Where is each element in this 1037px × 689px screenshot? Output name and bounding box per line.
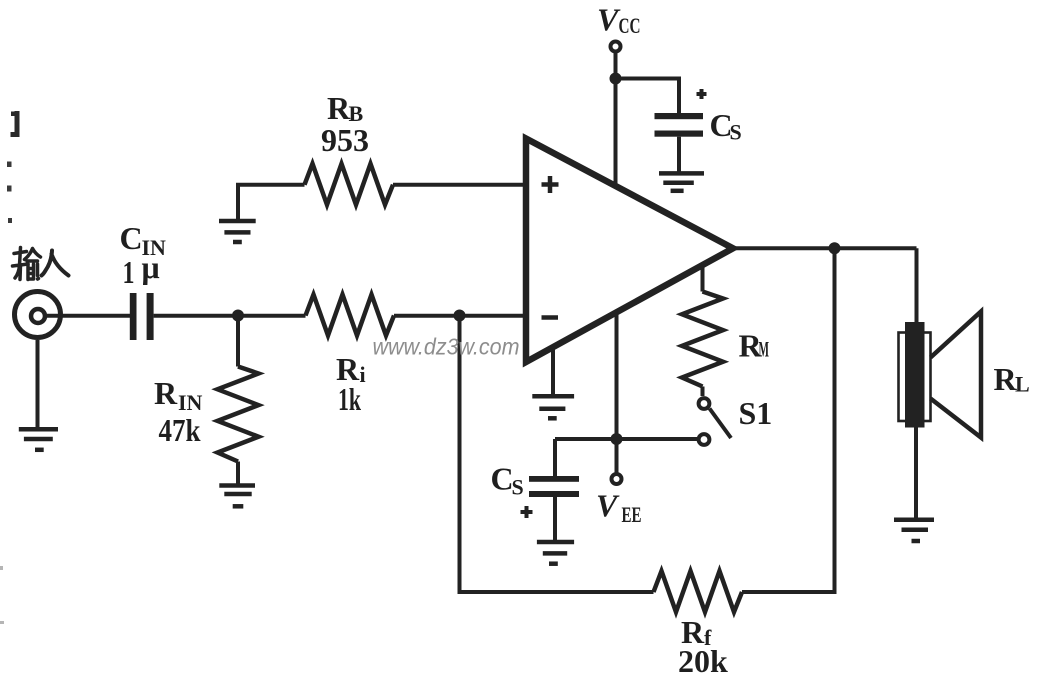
ground (op-amp) [532, 396, 574, 418]
partial glyph left edge top [11, 111, 20, 137]
wire output to speaker [915, 248, 919, 323]
node junction feedback tap [454, 310, 466, 322]
wire CIN to opamp inverting input [154, 314, 306, 318]
wire Rf to output node [742, 248, 835, 592]
wire VEE node to terminal [615, 439, 619, 474]
node junction VCC [610, 73, 622, 85]
label 47k [159, 412, 201, 448]
resistor Rf [654, 571, 743, 612]
switch S1 bottom contact [699, 434, 710, 445]
left edge faint dot 2 [0, 621, 4, 624]
capacitor CS (top) [655, 113, 704, 137]
left edge tick mark 2 [7, 186, 12, 192]
wire RB to opamp non-inverting input [393, 183, 526, 187]
wire junction to RIN [236, 316, 240, 367]
label CIN [120, 220, 167, 260]
svg-text:C: C [491, 461, 514, 497]
label RL [994, 361, 1030, 397]
wire VCC to CS top [616, 79, 680, 114]
switch S1 top contact [699, 398, 710, 409]
wire down to CS bottom [553, 439, 557, 476]
label VEE [596, 488, 642, 528]
svg-text:CC: CC [619, 13, 641, 38]
label Rf [681, 614, 712, 650]
resistor RM [682, 292, 723, 387]
label VCC [597, 2, 641, 39]
label RM [739, 328, 770, 364]
svg-text:M: M [759, 337, 770, 362]
svg-text:953: 953 [321, 122, 369, 158]
wire opamp V- pin to VEE node [615, 313, 619, 440]
VCC terminal circle [611, 42, 621, 52]
label Ri [336, 351, 366, 387]
ground (CS bottom) [537, 542, 574, 564]
wire CS bottom to ground [553, 497, 557, 542]
label CS bottom [491, 461, 524, 500]
label S1 [739, 395, 773, 431]
VEE terminal circle [612, 474, 622, 484]
left edge tick mark 3 [8, 218, 12, 223]
switch S1 blade [710, 409, 732, 439]
left edge faint dot 1 [0, 566, 3, 570]
svg-text:V: V [597, 2, 621, 38]
label CS top [710, 107, 742, 145]
capacitor CS (bottom) [529, 476, 579, 497]
wire CS top to ground [677, 137, 681, 174]
input jack inner circle [31, 309, 45, 323]
svg-text:R: R [994, 361, 1018, 397]
label 1k [338, 381, 361, 417]
label RIN [154, 375, 203, 415]
speaker RL coil frame [899, 333, 931, 422]
wire opamp to RM [701, 266, 705, 292]
label 953 [321, 122, 369, 158]
ground (RIN) [219, 486, 255, 507]
left edge tick mark 1 [7, 162, 12, 168]
capacitor CIN [130, 293, 154, 340]
svg-text:1: 1 [123, 254, 135, 290]
wire input jack to ground [36, 340, 40, 429]
svg-text:47k: 47k [159, 412, 201, 448]
opamp minus input symbol [542, 315, 559, 320]
ground (input jack) [19, 429, 58, 450]
node junction VEE [611, 433, 623, 445]
resistor RIN [218, 367, 259, 462]
svg-text:C: C [120, 220, 143, 256]
node junction at RIN tap [232, 310, 244, 322]
svg-text:1k: 1k [338, 381, 361, 417]
wire ground to RB [238, 185, 305, 221]
ground (RB) [219, 221, 256, 242]
op-amp U1 [526, 139, 733, 363]
plus sign CS top [697, 89, 707, 99]
svg-text:S: S [730, 120, 742, 145]
wire input jack to CIN [47, 314, 130, 318]
watermark www.dz3w.com [373, 334, 520, 360]
plus sign CS bottom [521, 506, 533, 518]
input jack outer circle [15, 292, 61, 338]
opamp plus input symbol [542, 176, 559, 193]
wire opamp ground pin [551, 348, 555, 397]
svg-text:S1: S1 [739, 395, 773, 431]
label 1u [123, 249, 160, 290]
svg-text:20k: 20k [678, 643, 728, 679]
label 输入 (input) [13, 248, 69, 280]
svg-text:R: R [327, 90, 351, 126]
wire RM to S1 [701, 387, 705, 397]
label 20k [678, 643, 728, 679]
speaker RL coil bar [905, 322, 925, 428]
wire VEE node to CS bottom and S1 [555, 437, 698, 441]
resistor Ri [306, 295, 395, 336]
svg-text:www.dz3w.com: www.dz3w.com [373, 334, 520, 360]
wire feedback down left [460, 316, 654, 593]
svg-text:R: R [154, 375, 178, 411]
node junction output [829, 242, 841, 254]
svg-text:S: S [512, 475, 524, 500]
svg-text:V: V [596, 488, 620, 524]
svg-text:L: L [1015, 372, 1030, 397]
ground (speaker) [894, 520, 934, 541]
svg-text:EE: EE [622, 502, 642, 527]
ground (CS top) [659, 173, 704, 190]
wire speaker to ground [914, 428, 918, 520]
resistor RB [305, 164, 394, 205]
wire RIN to ground [236, 462, 240, 486]
label RB [327, 90, 364, 126]
speaker RL horn [931, 312, 982, 438]
wire Ri to opamp [394, 314, 526, 318]
wire opamp output [733, 246, 917, 250]
svg-text:μ: μ [142, 249, 160, 285]
wire VCC to opamp [614, 53, 618, 187]
